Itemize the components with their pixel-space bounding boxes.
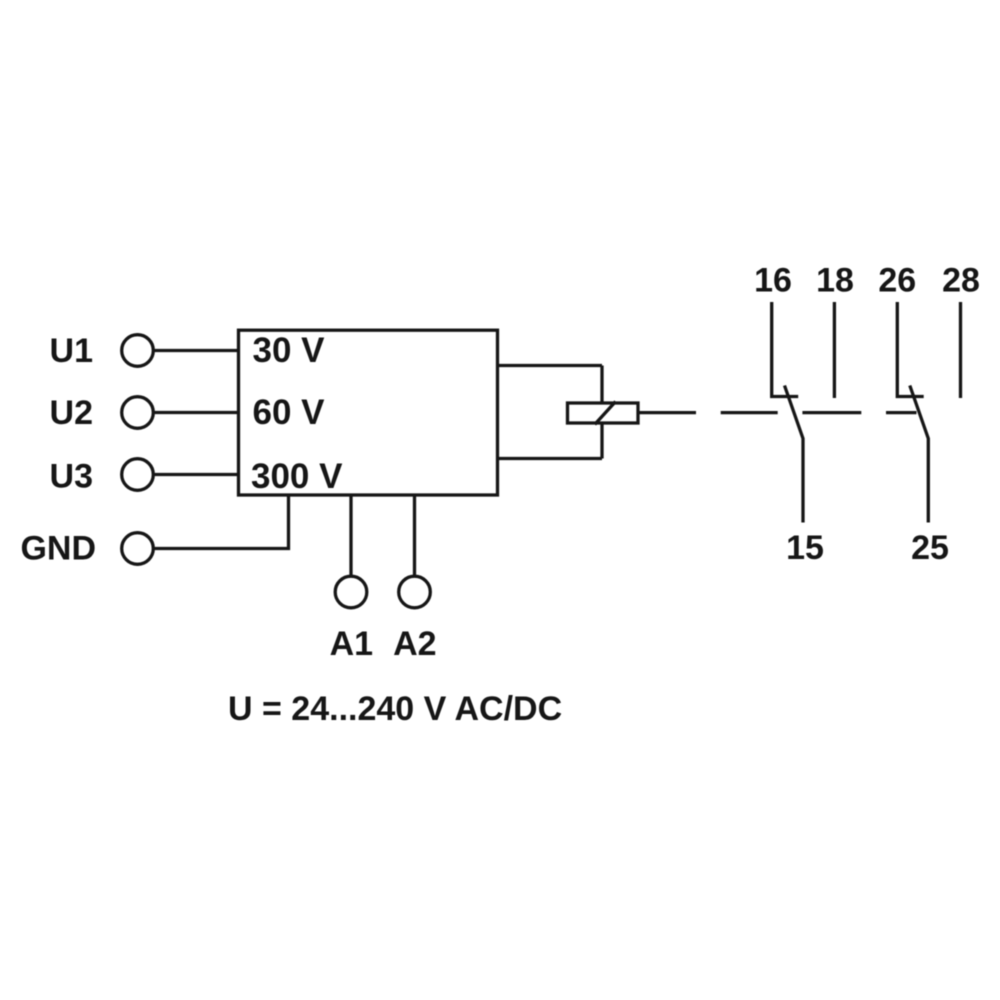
svg-text:A2: A2 (393, 625, 436, 663)
wire A2 (413, 495, 416, 575)
relay coil K1 body (568, 403, 639, 423)
contact terminal 18 (833, 302, 836, 398)
wire A1 (349, 495, 352, 575)
svg-text:60 V: 60 V (253, 393, 326, 432)
contact terminal 28 (959, 302, 962, 398)
svg-text:18: 18 (816, 262, 854, 300)
device box (239, 330, 498, 495)
svg-text:A1: A1 (330, 625, 373, 663)
mechanical link dash 3 (886, 411, 917, 414)
svg-text:U3: U3 (50, 458, 93, 496)
contact terminal 16 with foot (772, 302, 799, 397)
mechanical link dash 1 (721, 411, 778, 414)
svg-text:16: 16 (754, 262, 792, 300)
wire U1 to box (154, 349, 239, 352)
wire GND to box bottom (154, 495, 289, 549)
wire coil lower from box (497, 457, 602, 460)
relay coil K1 slash (595, 402, 616, 425)
mechanical link dash 2 (802, 411, 861, 414)
svg-text:25: 25 (911, 529, 949, 567)
terminal circle U1 (122, 335, 154, 367)
terminal circle A2 (399, 576, 431, 608)
terminal circle GND (122, 533, 154, 565)
svg-text:300 V: 300 V (251, 457, 343, 496)
terminal circle U2 (122, 397, 154, 429)
wire coil output (640, 411, 697, 414)
wire U2 to box (154, 411, 239, 414)
svg-text:U = 24...240 V AC/DC: U = 24...240 V AC/DC (228, 690, 562, 728)
svg-text:28: 28 (942, 262, 980, 300)
terminal circle A1 (335, 576, 367, 608)
svg-text:U2: U2 (50, 394, 93, 432)
contact lever 25 (910, 386, 929, 523)
wire U3 to box (154, 473, 239, 476)
contact lever 15 (785, 386, 804, 523)
svg-text:30 V: 30 V (253, 331, 326, 370)
svg-text:26: 26 (878, 262, 916, 300)
svg-text:U1: U1 (50, 332, 93, 370)
wire coil upper from box (497, 364, 602, 367)
svg-text:15: 15 (786, 529, 824, 567)
terminal circle U3 (122, 459, 154, 491)
wire coil vertical (600, 366, 603, 459)
contact terminal 26 with foot (897, 302, 923, 397)
svg-text:GND: GND (20, 530, 96, 568)
